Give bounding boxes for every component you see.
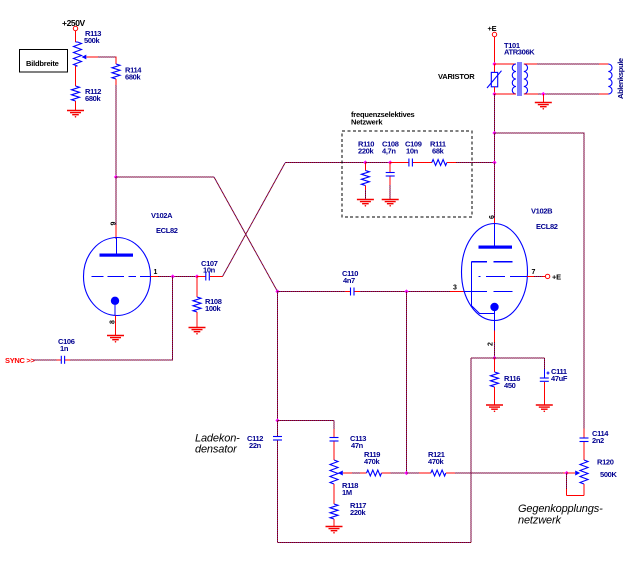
varistor <box>438 64 502 94</box>
wire R111 to anode rail <box>447 162 495 164</box>
svg-text:+E: +E <box>552 273 561 282</box>
node R110 top <box>363 160 367 164</box>
terminal +250V <box>62 18 86 31</box>
wire R114 to anode node <box>115 79 117 177</box>
screen grid g2 (dashed, pin 7) <box>478 275 527 277</box>
wire crossing corner to C110 <box>278 291 351 293</box>
resistor R111 <box>430 140 447 166</box>
svg-text:3: 3 <box>453 285 457 292</box>
svg-text:68k: 68k <box>432 147 445 156</box>
capacitor C110 <box>342 269 358 296</box>
svg-text:1n: 1n <box>60 344 69 353</box>
svg-text:220k: 220k <box>358 147 374 156</box>
node grid V102A <box>171 274 175 278</box>
triode V102A <box>84 211 178 324</box>
transformer T101 secondary <box>524 64 528 94</box>
wire R120 wiper arm <box>567 472 576 474</box>
svg-text:4n7: 4n7 <box>343 276 355 285</box>
pentode V102B <box>453 207 558 347</box>
capacitor C112 <box>247 421 282 543</box>
svg-text:ECL82: ECL82 <box>156 226 178 235</box>
svg-text:4,7n: 4,7n <box>382 147 396 156</box>
svg-text:R120: R120 <box>597 458 614 467</box>
svg-text:1M: 1M <box>342 488 352 497</box>
capacitor C111 (electrolytic) <box>540 358 568 405</box>
terminal +E pin7 <box>545 273 561 282</box>
node crossing corner (diagonal to grid wire) <box>275 289 279 293</box>
capacitor C107 <box>197 259 223 281</box>
potentiometer R118 <box>330 460 358 497</box>
svg-text:9: 9 <box>111 222 118 226</box>
wire network node to pentode anode <box>494 163 496 225</box>
resistor R108 <box>193 277 222 328</box>
wire anode stem V102A <box>115 177 117 239</box>
node anode V102A <box>114 175 118 179</box>
label Gegenkopplungsnetzwerk <box>518 503 603 527</box>
wire C109 to R111 <box>413 162 432 164</box>
dashed box frequenzselektives Netzwerk <box>342 110 472 217</box>
svg-text:6: 6 <box>489 215 496 219</box>
ground under R117 <box>326 527 343 534</box>
capacitor C114 <box>580 429 610 461</box>
svg-text:470k: 470k <box>364 457 380 466</box>
wire C107 diagonal to network rail <box>223 163 286 277</box>
wire tap to ground <box>542 94 544 102</box>
wire anode rail to network node <box>494 133 496 163</box>
wire R121 to R120 wiper node (crosses cathode riser) <box>446 472 567 474</box>
svg-text:netzwerk: netzwerk <box>518 515 561 527</box>
ground under R110 <box>357 200 374 207</box>
cathode V102A <box>111 297 119 305</box>
node cathode V102B <box>492 356 496 360</box>
ground under R108 <box>189 328 206 335</box>
ground under R112 <box>67 111 84 118</box>
cathode V102B <box>490 303 498 311</box>
svg-text:100k: 100k <box>205 304 221 313</box>
resistor R110 <box>358 140 374 200</box>
svg-text:450: 450 <box>504 381 516 390</box>
node C108 top <box>388 160 392 164</box>
wire R113 wiper to R114 <box>86 57 116 65</box>
svg-text:V102B: V102B <box>531 207 553 216</box>
svg-text:SYNC >>: SYNC >> <box>5 356 36 365</box>
wire C110 to pin 3 <box>355 291 464 293</box>
svg-text:47uF: 47uF <box>551 374 568 383</box>
svg-text:22n: 22n <box>249 441 262 450</box>
transformer T101 primary <box>495 41 536 94</box>
node R108 top <box>195 274 199 278</box>
wire rail C108 to C109 <box>390 162 408 164</box>
svg-text:47n: 47n <box>351 441 364 450</box>
resistor R117 <box>330 501 366 526</box>
wire node to R121 <box>407 472 431 474</box>
wire anode rail down <box>494 94 496 133</box>
svg-text:ECL82: ECL82 <box>536 222 558 231</box>
wire R120 bottom loop <box>567 473 584 496</box>
svg-text:220k: 220k <box>350 508 366 517</box>
wire rail R110 to C108 <box>365 162 390 164</box>
transformer T101 core <box>518 62 522 96</box>
capacitor C109 <box>405 140 422 167</box>
wire left riser down (from crossing corner) <box>277 292 279 421</box>
node R119 R121 junction <box>404 471 408 475</box>
resistor R112 <box>72 86 102 103</box>
anode bar V102A <box>100 254 134 257</box>
node C110 riser <box>404 289 408 293</box>
wire C110 riser down <box>406 292 408 474</box>
capacitor C113 <box>330 434 367 460</box>
ground cathode V102A <box>107 336 124 343</box>
wire grid V102A <box>151 276 198 278</box>
wire R112 to ground <box>75 101 77 110</box>
wire R119 to node <box>382 472 407 474</box>
grid V102A (dashed) <box>92 276 151 278</box>
label box Bildbreite <box>20 50 68 73</box>
ground transformer <box>535 103 552 110</box>
wire +250V to R113 <box>75 31 77 42</box>
wire anode V102A to crossing (horizontal + diagonal) <box>116 176 214 178</box>
wire cathode V102A to ground <box>115 316 117 336</box>
anode bar V102B <box>479 246 513 249</box>
resistor R114 <box>112 64 142 82</box>
wire secondary bottom to Ablenkspule with ground tap <box>524 93 609 95</box>
wire SYNC to C106 to grid riser <box>33 277 173 360</box>
label Ladekondensator <box>195 433 240 456</box>
wire cathode node left to feedback riser <box>278 358 495 543</box>
svg-text:680k: 680k <box>125 73 141 82</box>
svg-text:VARISTOR: VARISTOR <box>438 72 475 81</box>
wire cathode node right to C111 <box>495 357 545 359</box>
svg-text:500k: 500k <box>84 36 100 45</box>
svg-text:470k: 470k <box>428 457 444 466</box>
suppressor grid g3 (dashed, tied to cathode) <box>471 262 512 306</box>
svg-text:10n: 10n <box>203 266 216 275</box>
svg-text:densator: densator <box>195 444 238 456</box>
svg-text:ATR306K: ATR306K <box>504 48 535 57</box>
ground under C111 <box>536 405 553 412</box>
wire R118 wiper to R119 <box>343 472 367 474</box>
svg-text:2: 2 <box>488 342 495 346</box>
svg-text:680k: 680k <box>85 94 101 103</box>
svg-text:+E: +E <box>488 24 497 33</box>
svg-text:Netzwerk: Netzwerk <box>351 118 383 127</box>
node R120 wiper <box>565 471 569 475</box>
resistor R119 <box>364 450 382 476</box>
control grid g1 (pin 3) <box>463 291 512 293</box>
ground under C108 <box>382 200 399 207</box>
resistor R116 <box>491 358 521 405</box>
capacitor C106 <box>58 337 75 364</box>
node feedback tap <box>492 131 496 135</box>
capacitor C108 <box>382 140 399 200</box>
potentiometer R113 <box>74 29 102 66</box>
wire R118 to R117 <box>333 484 335 504</box>
wire secondary top to Ablenkspule <box>524 63 609 65</box>
node varistor top <box>492 62 496 66</box>
inductor Ablenkspule <box>608 58 625 99</box>
resistor R121 <box>428 450 446 476</box>
wire R113 bottom to R112 <box>76 65 78 67</box>
svg-text:Gegenkopplungs-: Gegenkopplungs- <box>518 503 603 515</box>
node Ladekondensator branch <box>275 418 279 422</box>
svg-text:V102A: V102A <box>151 211 173 220</box>
svg-text:1: 1 <box>154 269 158 276</box>
wire pin 7 to +E <box>527 275 545 277</box>
svg-text:Ablenkspule: Ablenkspule <box>616 58 625 99</box>
wire feedback tap to right riser <box>495 133 585 429</box>
ground under R116 <box>486 405 503 412</box>
svg-text:500K: 500K <box>600 470 617 479</box>
wire branch to C113 <box>278 421 335 438</box>
svg-text:7: 7 <box>532 269 536 276</box>
potentiometer R120 <box>575 458 617 485</box>
wire cathode V102B to node <box>494 331 496 359</box>
svg-text:Bildbreite: Bildbreite <box>26 59 59 68</box>
svg-text:10n: 10n <box>406 147 419 156</box>
svg-text:2n2: 2n2 <box>592 436 604 445</box>
node varistor bottom <box>492 92 496 96</box>
node network junction <box>492 160 496 164</box>
terminal +E top <box>488 24 497 37</box>
node transformer ground tap <box>541 92 545 96</box>
wire +E to varistor node <box>494 37 496 64</box>
